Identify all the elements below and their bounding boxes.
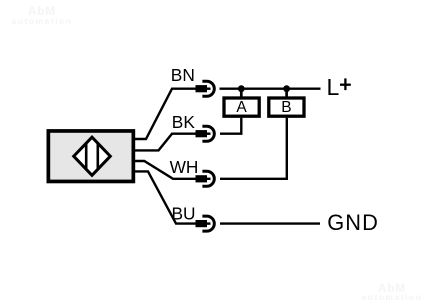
svg-text:BU: BU <box>172 203 196 223</box>
svg-text:L: L <box>327 74 340 100</box>
svg-text:WH: WH <box>170 157 199 177</box>
svg-text:BK: BK <box>172 112 196 132</box>
sensor optic diamond symbol <box>74 137 111 175</box>
junction dot node A feed <box>238 85 245 92</box>
wire WH (sensor to connector) <box>134 161 196 179</box>
label L+ <box>327 74 351 100</box>
wire BK (sensor to connector) <box>134 134 197 151</box>
sensor U1 body <box>48 131 133 182</box>
wire BU (sensor to connector) <box>134 171 196 223</box>
wire junction to load A <box>240 89 243 98</box>
wire load B to WH connector <box>220 118 287 179</box>
wire load A to BK connector <box>220 118 241 134</box>
junction dot node B feed <box>283 85 290 92</box>
watermark top-left <box>12 6 73 26</box>
load B box <box>269 98 304 116</box>
connector BK <box>196 126 215 141</box>
connector BU <box>196 216 215 231</box>
wire BU connector to GND <box>220 222 320 224</box>
svg-text:BN: BN <box>171 65 195 85</box>
svg-text:automation: automation <box>362 292 423 302</box>
svg-text:automation: automation <box>12 16 73 26</box>
wire BN (sensor to connector) <box>134 89 196 139</box>
watermark bottom-right <box>362 283 423 302</box>
wire junction to load B <box>285 89 288 98</box>
connector BN <box>196 81 215 96</box>
svg-text:A: A <box>236 99 247 116</box>
connector WH <box>196 171 215 186</box>
wire BN connector to L+ rail <box>220 87 321 89</box>
svg-text:GND: GND <box>327 210 379 235</box>
svg-text:B: B <box>281 99 291 116</box>
load A box <box>224 98 259 116</box>
